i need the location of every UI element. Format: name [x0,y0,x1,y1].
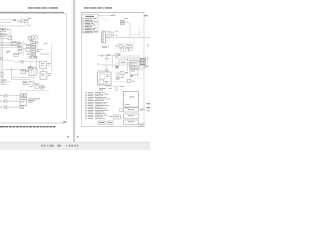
connector CN5 [20,60,24,63]
ic U14 [28,67,32,70]
note list [82,14,98,33]
wire [11,76,34,78]
wire [112,56,114,68]
toolbar icon b [44,145,46,147]
connector CN6 [29,67,36,76]
ic U18 [29,82,33,87]
sheet title [28,7,33,9]
label [107,31,111,34]
label [144,66,149,67]
label [121,77,124,78]
frame left border [80,12,82,126]
toolbar icon e2 [69,145,71,147]
wire [115,57,151,59]
title block [139,124,144,127]
wire [2,37,4,72]
label [48,62,52,65]
ic U17 [23,81,27,84]
label [115,30,118,33]
sheet title [84,7,89,9]
toolbar icon c [47,145,48,147]
frame bottom border [0,122,67,124]
label [125,72,128,73]
device DEV1 [98,72,112,85]
ic U1 [31,42,36,57]
ic U3 [8,36,12,40]
label [120,85,125,88]
wire [24,61,40,63]
wire [121,102,123,106]
wire [101,64,133,66]
resistor R23 [129,48,132,51]
wire [133,38,135,49]
wire [129,67,147,69]
wire [17,41,19,48]
wire [11,67,13,79]
resistor R21 [112,35,114,37]
label [29,39,33,42]
wire [6,81,11,83]
wire [11,79,31,81]
spark gap SG1 [121,20,125,25]
capacitor C2 [29,56,31,58]
plug row 1 [0,94,2,97]
label [115,45,118,48]
wire [106,54,108,58]
wire [27,70,29,72]
toolbar icon d [57,145,61,147]
label [28,18,30,19]
relay K3 [1,79,6,84]
ic U20 [107,34,110,37]
wire [115,74,125,76]
ic U26 [130,61,140,69]
wire [147,58,149,68]
wire [27,37,29,39]
wire [129,34,140,36]
top rule [0,11,64,13]
wire [0,25,25,27]
capacitor C1 [17,20,19,22]
wire [115,37,151,39]
wire [32,67,37,69]
ic U6 [18,42,21,45]
wire [42,68,44,72]
ic U8 [18,51,21,54]
label [144,15,148,16]
motor M2 [115,88,118,91]
ic U31 [98,121,105,125]
ferrite FB2 [24,94,27,97]
label [118,54,120,56]
label [102,45,109,48]
wire [106,66,108,73]
ic U28 [120,72,124,75]
wire [133,65,135,72]
transistor Q1 [20,19,23,22]
toolbar icon g [75,145,77,147]
frame right border [66,14,68,123]
label [132,80,135,83]
label [147,103,151,104]
motor M1 [40,85,44,89]
wire [36,68,38,70]
toolbar icon h [77,145,78,147]
label [27,54,30,55]
label [28,98,40,101]
frame top border [0,13,67,15]
wire [18,41,20,48]
wire [117,59,148,61]
ic U4 [12,41,16,46]
wire [97,69,105,71]
label [124,17,128,20]
bus [0,42,18,44]
wire [36,45,38,53]
wire [30,62,32,67]
connector CN21 [102,31,106,43]
ic U2 [25,19,29,23]
relay K2 [0,33,4,37]
plug row 3 [0,106,2,109]
toolbar icon a [41,145,43,147]
frame top border [81,11,144,13]
divider rule between pages [73,0,76,142]
wire [0,32,2,72]
label [13,20,16,21]
wire [129,77,143,79]
wire [10,30,12,45]
frame right border [143,12,145,126]
ic U7 [18,46,22,50]
ic U9 [27,44,31,48]
wire [22,41,24,56]
wire [115,53,121,55]
left page scan edge [71,0,74,127]
toolbar icon f [72,145,74,147]
ic U33 [114,115,121,119]
ferrite FB1 [20,94,23,97]
wire [98,14,115,16]
wire [36,57,38,67]
ic U23 [127,44,132,48]
fan FAN1 [40,72,47,80]
ic U15 [40,61,47,68]
ic U29 [127,80,131,83]
ic U25 [115,54,118,57]
label [108,54,111,55]
label [6,50,11,53]
wire [120,55,140,57]
wire [129,69,143,71]
wire [30,80,32,84]
label [111,15,116,16]
wire [105,85,119,87]
label [97,63,100,66]
label [105,57,109,60]
wire [0,21,12,23]
wire [0,37,8,39]
page number 4 [63,121,65,123]
label [44,42,47,45]
frame bottom border [81,126,144,128]
relay K1 [0,28,6,32]
wire [97,55,120,57]
psu PS1 [20,98,27,106]
wire [125,22,131,24]
diode D3 [37,49,39,52]
ic U5 [14,53,19,57]
label [140,108,144,111]
wire [115,81,127,83]
bus [120,48,122,52]
wire [4,34,11,36]
wire [131,65,133,72]
label [24,42,26,45]
resistor R20 [112,32,114,34]
connector CN2 [1,72,2,73]
box B1 [124,108,139,113]
ferrite FB3 [20,106,24,109]
resistor R26 [120,109,124,112]
wire [115,43,127,45]
wire [115,72,120,74]
caption text [0,126,56,127]
label [109,115,113,118]
wire [3,60,14,62]
label [35,56,38,58]
wire [33,77,35,85]
fuse F1 [101,55,103,57]
wire [139,108,148,110]
box B2 [124,114,139,119]
wire [115,62,133,64]
ic U11 [29,37,32,40]
wire [139,28,141,38]
label [99,87,106,90]
ic U30 [105,69,108,71]
wire [121,116,124,118]
label [108,87,112,90]
ic U16 [21,69,25,73]
resistor R22 [147,45,149,47]
plug row 2 [0,100,2,103]
ic U27 [130,70,138,75]
resistor R24 [116,77,118,79]
label [121,62,125,63]
diode D2 [0,57,2,60]
label [123,45,125,48]
bottom toolbar strip [0,142,150,150]
resistor R25 [118,77,119,79]
wire [27,56,30,58]
ic U24 [115,66,119,69]
wire [13,61,20,63]
ic U13 [31,56,34,59]
ic U32 [107,121,113,125]
wire [0,19,13,21]
wire [25,24,29,26]
wire [129,65,147,67]
wire [51,43,53,71]
wire [118,60,120,65]
label [40,53,49,56]
transformer T1 [124,92,139,108]
pin block CN20 [140,59,145,65]
ic U12 [32,36,35,40]
toolbar tick e [66,145,67,147]
wire [20,89,22,92]
wire [127,58,129,72]
wire [129,23,131,38]
wire [133,75,141,77]
box B3 [124,120,139,125]
varistor RV1 [34,36,37,39]
toolbar zoom label [50,145,55,147]
pager dot 2 [77,136,78,138]
ic U10 [27,49,31,52]
toolbar top border [0,141,150,144]
label [48,72,52,75]
pager dot 1 [67,136,69,138]
label [36,42,38,43]
wire [3,69,21,71]
wire [106,37,112,39]
wire [6,29,7,31]
parts list [85,91,87,94]
right page scan edge [75,0,78,127]
leader [120,90,124,92]
wire [99,17,107,22]
wire [117,73,119,79]
ic U22 [119,45,122,48]
ic U19 [35,83,39,88]
label [130,75,133,76]
resistor R1 [26,70,28,72]
diode D1 [5,34,7,36]
wire [101,64,113,66]
